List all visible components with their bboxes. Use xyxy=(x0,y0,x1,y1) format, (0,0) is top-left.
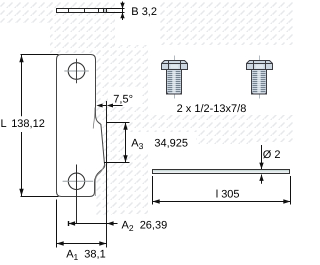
L dimension line xyxy=(19,55,23,196)
l right extension xyxy=(290,176,292,205)
bottom hole xyxy=(68,173,84,189)
svg-text:26,39: 26,39 xyxy=(140,220,168,232)
bolt 1 centerline xyxy=(174,56,176,99)
7,5 arrows xyxy=(96,104,122,108)
top hole centerlines xyxy=(64,70,89,72)
A3 dimension line xyxy=(123,123,127,163)
hatch zone right of plate xyxy=(96,45,148,215)
bottom hole centerline vertical down to A2 xyxy=(76,165,78,224)
white pocket behind A3 label xyxy=(124,132,196,153)
svg-text:138,12: 138,12 xyxy=(11,118,45,130)
A1 left extension xyxy=(56,200,58,248)
bottom hole centerline horizontal xyxy=(63,180,94,182)
bolt 1 xyxy=(162,61,188,95)
dimension B extension lines xyxy=(107,9,125,13)
dimension B arrows xyxy=(120,2,124,21)
hatch zone top-left xyxy=(0,0,56,23)
bolt 2 xyxy=(247,61,273,95)
white pocket behind A2 label xyxy=(112,214,182,236)
white pocket behind 7,5 deg text xyxy=(108,87,142,107)
l left extension xyxy=(152,176,154,205)
svg-text:Ø 2: Ø 2 xyxy=(263,149,281,161)
bend crease upper xyxy=(93,108,95,129)
plate outline xyxy=(57,55,105,197)
white pocket behind O2 label xyxy=(250,142,292,166)
svg-text:7,5°: 7,5° xyxy=(113,94,133,106)
long bar inner highlight xyxy=(154,170,290,172)
bend crease lower xyxy=(95,166,104,196)
svg-text:L: L xyxy=(1,118,7,130)
svg-text:B 3,2: B 3,2 xyxy=(131,6,157,18)
svg-text:l 305: l 305 xyxy=(216,188,240,200)
hatch zone mid band above long bar xyxy=(148,115,293,145)
plate edge view body xyxy=(57,9,107,13)
bolt 2 centerline xyxy=(259,56,261,99)
right extension line x=106.5 xyxy=(106,101,108,248)
hatch zone around top bar xyxy=(50,0,115,53)
svg-text:2 x 1/2-13x7/8: 2 x 1/2-13x7/8 xyxy=(177,103,247,115)
A3 top connector xyxy=(107,122,130,124)
l dimension line xyxy=(153,199,291,203)
svg-text:38,1: 38,1 xyxy=(84,249,105,261)
hatch zone top-right xyxy=(160,0,293,45)
top hole xyxy=(68,63,85,80)
white zone bolts xyxy=(148,45,293,115)
A1 dimension line xyxy=(57,241,107,245)
A2 dimension line xyxy=(68,221,118,226)
A3 bottom connector xyxy=(104,162,130,164)
long bar body xyxy=(153,170,290,174)
svg-text:34,925: 34,925 xyxy=(154,137,188,149)
L bottom connector xyxy=(21,196,59,198)
L top connector xyxy=(21,54,59,56)
